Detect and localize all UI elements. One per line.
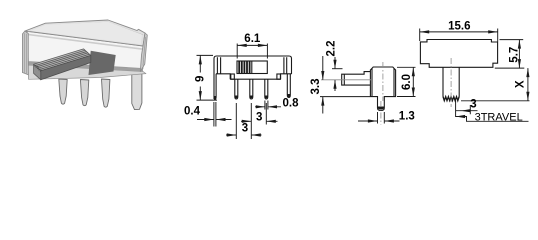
dim 1.3 extension lines — [378, 112, 385, 124]
dim 3 travel line — [456, 110, 478, 112]
3D pin 1 — [59, 79, 67, 104]
3D pin 2 — [80, 80, 88, 106]
front right mounting tab — [287, 74, 290, 98]
3D slot opening shadow — [89, 51, 116, 75]
svg-text:9: 9 — [194, 76, 206, 82]
3D cover front fold strip — [26, 33, 144, 50]
svg-text:X: X — [515, 80, 527, 88]
front handle ridge edge — [251, 61, 253, 74]
3D knob ribbed top face — [34, 49, 91, 71]
dim 0.4 arrows — [197, 119, 232, 121]
dim 9 extension lines — [197, 55, 218, 100]
front right clip tab — [277, 74, 281, 79]
travel note leader — [456, 117, 529, 122]
3D cover top face — [25, 20, 145, 46]
dim 2.2 extension line — [332, 68, 343, 70]
3D cover left end flap face — [22, 31, 28, 75]
3D right mounting tab — [132, 73, 142, 110]
side body inner edge lines — [372, 69, 394, 97]
svg-text:1.3: 1.3 — [399, 110, 415, 122]
dim 15.6 extension lines — [420, 29, 498, 42]
svg-text:6.0: 6.0 — [401, 74, 413, 90]
pin center extension lines — [236, 103, 266, 139]
front left flap bottom — [216, 74, 230, 79]
dim 3.3 arrows — [322, 56, 324, 114]
front pin 1 tip — [235, 96, 238, 99]
3D knob rib stripes — [35, 50, 89, 69]
front right flap fold lines — [284, 57, 287, 74]
dim 6.0 line — [412, 67, 414, 96]
3D left end flap fold lines — [24, 33, 26, 74]
dim 15.6 line — [420, 31, 498, 33]
3D knob serrated tip face — [34, 64, 41, 80]
side body centerline — [382, 62, 384, 101]
svg-text:6.1: 6.1 — [244, 33, 261, 45]
svg-text:3: 3 — [256, 111, 262, 123]
dim 3 travel extension lines — [456, 100, 471, 117]
front cover outline — [214, 56, 292, 99]
3D top face inner lip line — [46, 22, 143, 35]
front pin 3 tip — [265, 96, 268, 99]
3D plastic base front face — [28, 65, 146, 79]
side pin tip — [378, 107, 384, 110]
front pin 2 — [250, 79, 253, 99]
dim X bottom extension line — [461, 100, 530, 102]
dim 3.3 bottom extension line — [320, 96, 370, 98]
svg-text:2.2: 2.2 — [326, 41, 338, 57]
front left tab tip — [214, 96, 216, 100]
3D pin 3 — [102, 79, 110, 107]
front pin 2 tip — [250, 96, 253, 99]
dim 5.7 extension lines — [495, 40, 525, 69]
3D knob side face — [41, 55, 91, 79]
dim 1.3 arrows — [358, 120, 400, 122]
side body outline — [370, 67, 395, 111]
svg-text:15.6: 15.6 — [448, 21, 470, 33]
dim 3 (pin1-pin2) arrows — [226, 134, 262, 136]
front base top line — [230, 78, 280, 80]
top view knob serrated tip — [443, 97, 459, 101]
svg-text:3: 3 — [242, 122, 248, 134]
dim 3 (pin2-pin3) arrows — [241, 120, 278, 122]
svg-text:3.3: 3.3 — [310, 79, 322, 95]
svg-text:0.4: 0.4 — [184, 106, 201, 118]
front right flap bottom — [281, 74, 292, 79]
svg-text:3TRAVEL: 3TRAVEL — [475, 111, 523, 123]
front pin 3 — [265, 79, 268, 99]
front right tab tip — [287, 94, 290, 97]
dim 0.8 arrows — [255, 106, 281, 108]
3D right end fold line — [143, 37, 146, 66]
top view knob centerline — [450, 58, 452, 107]
top view outline — [420, 40, 497, 68]
dim X line — [527, 68, 529, 101]
front handle slot — [237, 61, 267, 74]
front left clip tab — [231, 74, 235, 79]
3D knob tip serration teeth — [34, 65, 42, 72]
side handle cap line — [343, 74, 345, 85]
3D recess shadow band — [28, 62, 143, 72]
dim 6.0 extension lines — [397, 67, 416, 96]
front pin 1 — [235, 79, 238, 99]
3D cover front face — [25, 31, 143, 69]
dim 0.4 extension lines — [214, 102, 216, 127]
svg-text:0.8: 0.8 — [283, 97, 300, 109]
dim 6.1 extension lines — [237, 44, 267, 59]
top view knob sides — [443, 67, 459, 96]
side handle — [342, 72, 371, 86]
svg-text:5.7: 5.7 — [509, 47, 521, 63]
3D top face highlight — [29, 22, 143, 45]
dim 5.7 line — [518, 40, 520, 69]
side pin centerline — [380, 101, 382, 125]
dim 6.1 line — [237, 44, 267, 46]
front left flap fold lines — [217, 57, 220, 74]
3D cover right end face — [140, 33, 147, 72]
dim 2.2 arrows — [334, 57, 336, 91]
front left mounting tab — [214, 74, 216, 100]
front handle ridges — [239, 61, 249, 73]
dim 9 line — [199, 55, 201, 100]
side handle centerline — [321, 79, 371, 81]
svg-text:3: 3 — [470, 99, 476, 111]
dim 0.8 extension lines — [265, 101, 268, 110]
